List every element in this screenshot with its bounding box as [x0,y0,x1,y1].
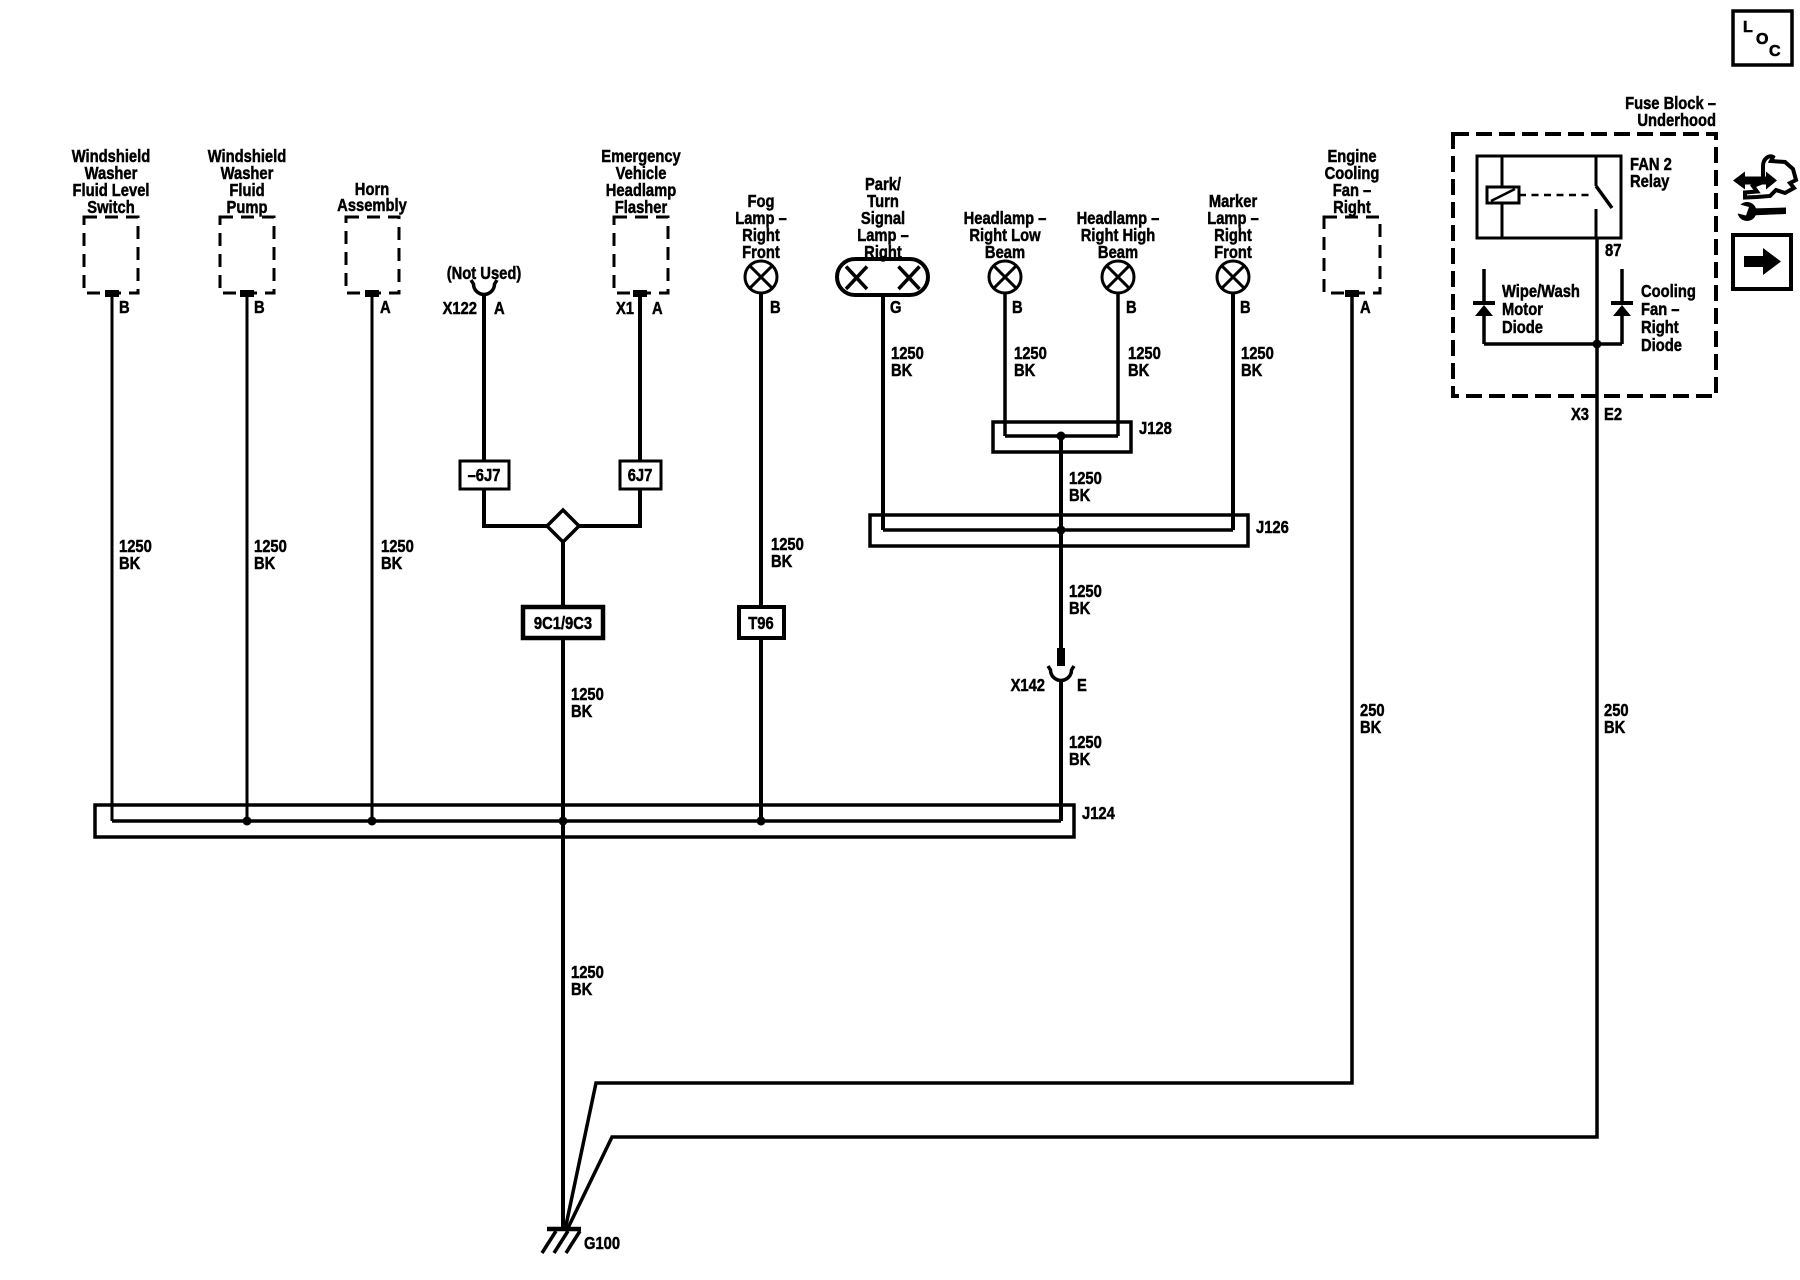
label: Windshield Washer Fluid Pump [208,147,286,218]
wire: horn A to J124 [371,295,374,821]
windshield washer fluid level switch (dashed box) [84,217,138,293]
svg-text:BK: BK [571,702,592,722]
svg-text:J124: J124 [1082,804,1116,824]
emergency vehicle headlamp flasher (dashed box) [614,217,668,293]
wire: relay 87 / E2 to G100 [567,238,1597,1230]
svg-text:B: B [770,298,781,318]
label: Headlamp - Right Low Beam [964,209,1047,263]
junction dot in J128 [1057,432,1066,441]
svg-text:E2: E2 [1604,405,1622,425]
svg-text:BK: BK [1069,486,1090,506]
svg-text:(Not Used): (Not Used) [447,264,522,284]
svg-text:BK: BK [119,554,140,574]
junction dot in J126 [1057,526,1066,535]
wire label 1250 BK (9C1/9C3 output) [571,685,604,722]
svg-text:Pump: Pump [227,198,268,218]
splice box 6J7 [620,461,661,489]
connector X122 (Not Used) [471,280,497,295]
headlamp - right low beam [989,261,1021,293]
headlamp - right high beam [1102,261,1134,293]
next-page arrow box [1733,235,1791,289]
wire: engine cooling fan to G100 [565,297,1352,1230]
wire label 250 BK (engine fan) [1360,701,1385,738]
junction dots in J124 [243,817,766,826]
svg-text:B: B [1240,298,1251,318]
wire label 1250 BK (marker) [1241,344,1274,381]
wire label 1250 BK (pump) [254,537,287,574]
svg-text:Relay: Relay [1630,172,1670,192]
label: X3 pin E2 [1571,405,1622,425]
svg-text:Right: Right [1333,198,1371,218]
svg-text:Switch: Switch [87,198,135,218]
horn assembly (dashed box) [346,217,399,293]
svg-text:A: A [652,299,663,319]
wire label 1250 BK (switch) [119,537,152,574]
svg-text:J126: J126 [1256,518,1289,538]
svg-text:BK: BK [1014,361,1035,381]
fuse block - underhood (dashed box) [1453,134,1716,396]
label: Headlamp - Right High Beam [1077,209,1160,263]
svg-text:A: A [494,299,505,319]
option box T96 [739,607,784,638]
LOC reference box [1733,11,1792,65]
svg-text:Assembly: Assembly [337,196,407,216]
wire: marker lamp to J126 [1231,293,1235,530]
svg-text:Motor: Motor [1502,300,1543,320]
svg-text:Cooling: Cooling [1641,282,1696,302]
wire: pump B to J124 [246,295,249,821]
label: Horn Assembly [337,180,407,216]
svg-text:BK: BK [1241,361,1262,381]
svg-text:X122: X122 [443,299,477,319]
label: X1 pin A [616,299,663,319]
svg-text:B: B [1126,298,1137,318]
svg-text:X142: X142 [1011,676,1045,696]
svg-text:BK: BK [254,554,275,574]
engine cooling fan - right (dashed box) [1324,217,1380,293]
svg-text:BK: BK [891,361,912,381]
wire label 1250 BK (horn) [381,537,414,574]
svg-text:BK: BK [1128,361,1149,381]
wire: diode bottoms join [1484,342,1622,346]
label: Engine Cooling Fan - Right [1325,147,1380,218]
svg-text:BK: BK [1604,718,1625,738]
wire label 1250 BK (high beam) [1128,344,1161,381]
wire: -6J7 to diamond splice [484,489,549,526]
wire: 6J7 to diamond splice [577,489,640,526]
marker lamp - right front [1217,261,1249,293]
service icon: double arrow with mitt and wrench [1732,156,1796,221]
diamond splice [547,510,579,542]
svg-text:BK: BK [1069,599,1090,619]
svg-text:B: B [119,298,130,318]
svg-text:BK: BK [571,980,592,1000]
relay FAN 2 (outline) [1477,156,1621,238]
svg-text:Diode: Diode [1502,318,1543,338]
svg-text:–6J7: –6J7 [468,466,501,486]
svg-text:Right: Right [864,243,902,263]
fog lamp - right front [745,261,777,293]
wire: J128 to J126 [1059,436,1063,530]
splice pack J124 [95,805,1074,837]
wire: high beam to J128 [1116,293,1120,436]
wire label 1250 BK (X142-J124) [1069,733,1102,770]
wire: J126 to X142 [1059,530,1063,648]
svg-text:BK: BK [1360,718,1381,738]
svg-text:G: G [890,298,901,318]
wire label 1250 BK (fog) [771,535,804,572]
svg-text:Underhood: Underhood [1637,111,1716,131]
svg-text:O: O [1756,31,1768,48]
svg-text:BK: BK [381,554,402,574]
svg-text:B: B [1012,298,1023,318]
svg-text:Front: Front [1214,243,1252,263]
wire label 1250 BK (low beam) [1014,344,1047,381]
svg-text:9C1/9C3: 9C1/9C3 [534,614,592,634]
label: X142 pin E [1011,676,1087,696]
label: Emergency Vehicle Headlamp Flasher [601,147,681,218]
label: Park/Turn Signal Lamp - Right [857,175,909,263]
svg-text:BK: BK [771,552,792,572]
wire: X1 A to splice box 6J7 [638,295,642,462]
svg-text:87: 87 [1605,241,1621,261]
svg-text:Beam: Beam [1098,243,1138,263]
option box 9C1/9C3 [523,607,603,638]
svg-text:A: A [380,298,391,318]
svg-text:B: B [254,298,265,318]
wire label 1250 BK (ground feed) [571,963,604,1000]
connector X142 [1057,648,1065,666]
relay coil [1487,187,1519,203]
label: Fog Lamp - Right Front [735,192,787,263]
splice box -6J7 [460,461,509,489]
cooling fan - right diode [1620,269,1624,303]
svg-text:X1: X1 [616,299,634,319]
svg-text:6J7: 6J7 [628,466,653,486]
svg-text:E: E [1077,676,1087,696]
label: X122 pin A [443,299,505,319]
splice pack J126 [870,515,1248,546]
wire: diamond to 9C1/9C3 [561,541,565,608]
svg-text:G100: G100 [584,1234,620,1254]
wire: park/turn to J126 [881,295,885,530]
label: Marker Lamp - Right Front [1207,192,1259,263]
svg-text:Right: Right [1641,318,1679,338]
relay actuation dashed link [1519,194,1594,197]
relay coil pin wire [1501,156,1504,238]
label: Fuse Block - Underhood [1625,94,1716,131]
svg-text:Wipe/Wash: Wipe/Wash [1502,282,1580,302]
ground G100 [542,1229,581,1253]
windshield washer fluid pump (dashed box) [220,217,274,293]
wire: X142 to J124 [1059,681,1063,821]
wire: X122 A to splice box -6J7 [482,295,486,462]
junction dot (diodes to relay output) [1593,340,1602,349]
svg-text:Flasher: Flasher [615,198,668,218]
svg-text:A: A [1360,298,1371,318]
svg-text:T96: T96 [748,614,773,634]
svg-text:Fan –: Fan – [1641,300,1680,320]
splice pack J128 [993,422,1131,452]
wipe/wash motor diode [1482,269,1486,303]
svg-text:L: L [1743,19,1753,36]
label: Wipe/Wash Motor Diode [1502,282,1580,338]
label: FAN 2 Relay [1630,155,1672,192]
relay switch [1595,156,1598,186]
svg-text:Front: Front [742,243,780,263]
svg-text:Beam: Beam [985,243,1025,263]
wire: T96 to J124 [759,638,763,821]
svg-text:BK: BK [1069,750,1090,770]
svg-text:X3: X3 [1571,405,1589,425]
wire label 1250 BK (park/turn) [891,344,924,381]
wire label 250 BK (fuse block) [1604,701,1629,738]
label: Cooling Fan - Right Diode [1641,282,1696,356]
svg-text:C: C [1769,43,1781,60]
wire: fog lamp to T96 [759,293,763,608]
wire: low beam to J128 [1003,293,1007,436]
svg-text:Diode: Diode [1641,336,1682,356]
wire: switch B to J124 [111,295,114,821]
label: Windshield Washer Fluid Level Switch [72,147,150,218]
park/turn signal lamp - right (dual element) [837,259,928,295]
wire label 1250 BK (J126-X142) [1069,582,1102,619]
wire label 1250 BK (J128-J126) [1069,469,1102,506]
wire: 9C1/9C3 through J124 to G100 [561,638,565,1229]
svg-text:J128: J128 [1139,419,1172,439]
